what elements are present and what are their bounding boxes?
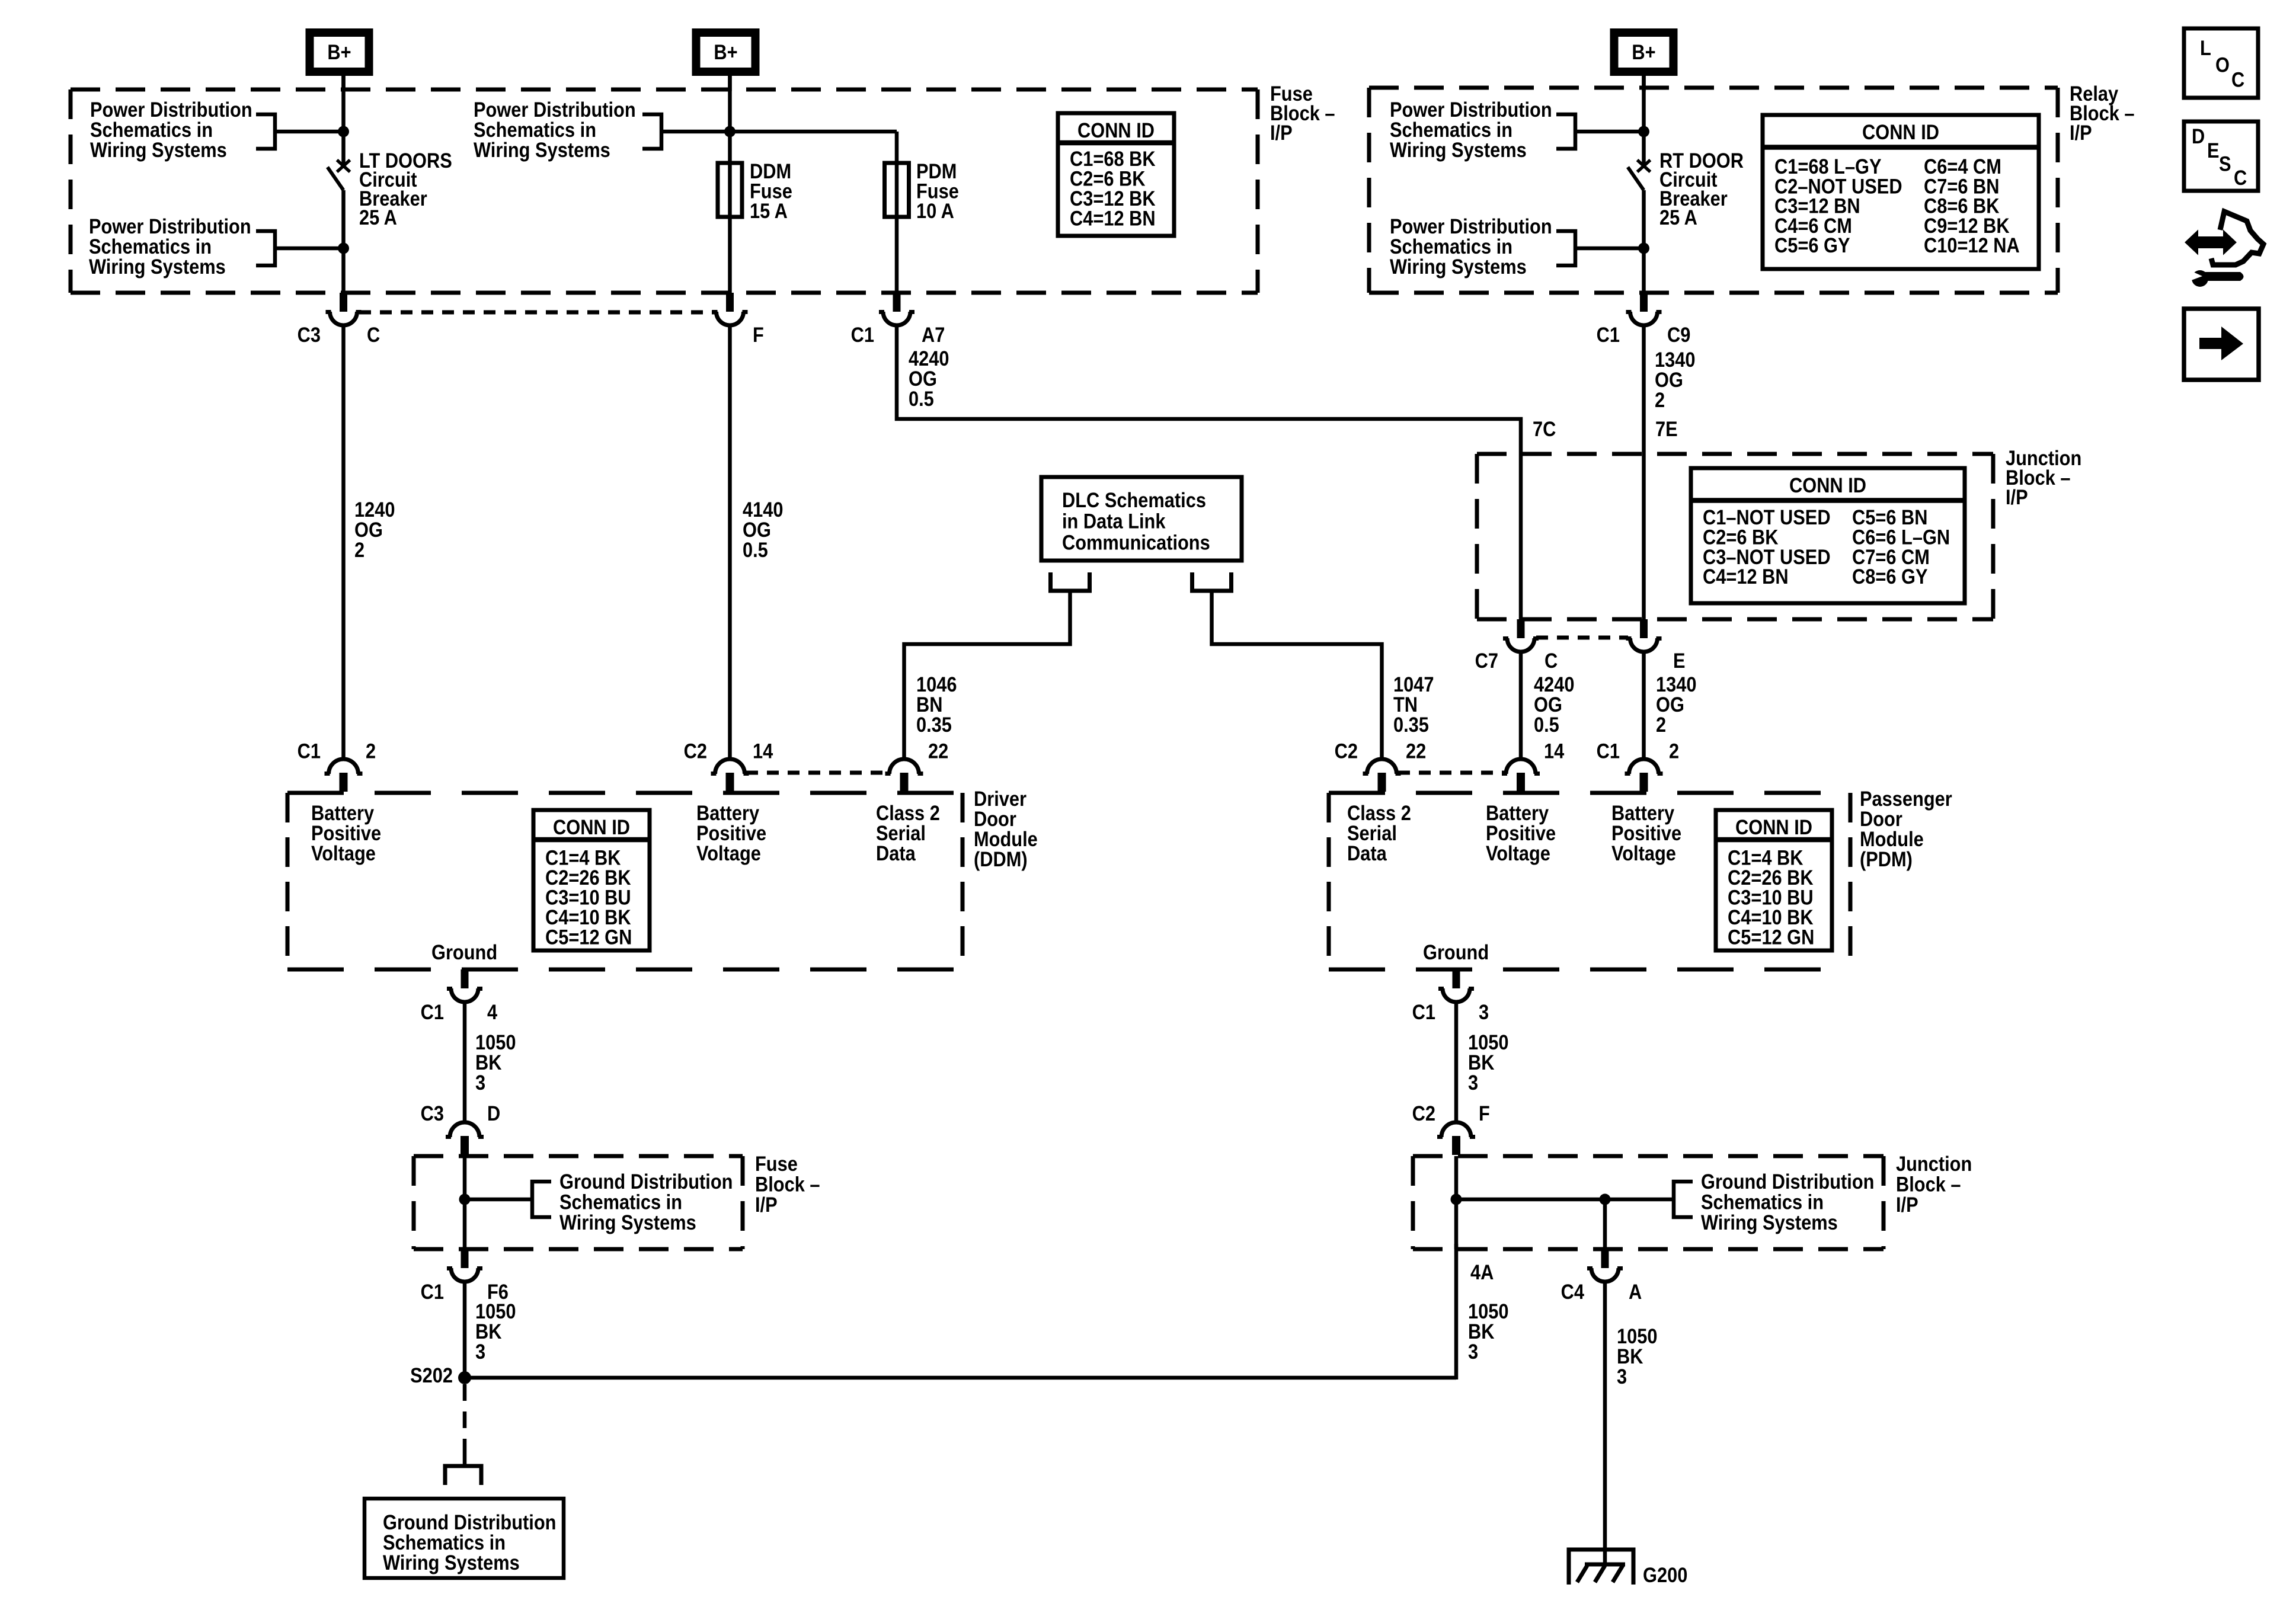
wire callout to RT DOOR breaker — [1575, 247, 1644, 251]
wire B+ down to LT DOORS breaker — [341, 76, 346, 168]
Passenger Door Module dashed enclosure — [1329, 791, 1850, 795]
svg-text:C1: C1 — [298, 740, 321, 763]
connector pin 22 into PDM — [1367, 759, 1397, 774]
svg-text:Wiring Systems: Wiring Systems — [1701, 1211, 1838, 1234]
wire 1240 OG 2 from C3-C to DDM — [341, 325, 346, 760]
svg-text:3: 3 — [475, 1071, 485, 1094]
connector C1-F6 below fuse block — [461, 1249, 469, 1268]
svg-text:0.35: 0.35 — [916, 713, 952, 736]
svg-text:Fuse: Fuse — [755, 1152, 798, 1175]
svg-text:CONN ID: CONN ID — [1077, 119, 1155, 142]
connector C1-A7 below fuse block — [893, 293, 901, 312]
junction dot — [459, 1194, 471, 1205]
connector row dashed line — [359, 311, 715, 315]
wire C4 branch down — [1603, 1199, 1607, 1249]
Fuse Block - I/P dashed enclosure (ground distribution) — [414, 1154, 743, 1158]
icon forward arrow box — [2184, 309, 2259, 380]
connector C7-C below junction block — [1517, 619, 1525, 638]
wire callout to RT DOOR breaker — [1575, 130, 1644, 134]
svg-text:C3: C3 — [421, 1102, 444, 1125]
svg-text:4A: 4A — [1470, 1260, 1494, 1283]
svg-text:E: E — [2207, 139, 2220, 162]
junction dot at DDM fuse feed — [724, 126, 736, 137]
svg-text:C: C — [367, 323, 380, 346]
svg-text:C: C — [2234, 166, 2247, 189]
svg-text:Voltage: Voltage — [311, 841, 376, 865]
wire 1050 BK 3 from PDM ground — [1454, 1002, 1459, 1123]
svg-text:C: C — [1544, 649, 1558, 672]
svg-text:22: 22 — [928, 740, 948, 763]
svg-text:15 A: 15 A — [750, 199, 788, 222]
Driver Door Module dashed enclosure — [287, 791, 962, 795]
wire 1050 BK 3 to S202 — [463, 1282, 467, 1378]
svg-text:Schematics in: Schematics in — [1701, 1190, 1824, 1214]
svg-text:Wiring Systems: Wiring Systems — [474, 138, 610, 161]
svg-text:3: 3 — [1617, 1365, 1627, 1388]
svg-text:D: D — [2192, 124, 2205, 148]
svg-text:22: 22 — [1406, 740, 1426, 763]
svg-text:4: 4 — [487, 1000, 498, 1023]
svg-text:B+: B+ — [327, 40, 351, 63]
connector C3-C below fuse block — [340, 293, 347, 312]
wire through fuse block — [463, 1156, 467, 1249]
svg-text:Voltage: Voltage — [1486, 841, 1550, 865]
svg-text:Ground: Ground — [1423, 940, 1489, 964]
svg-text:14: 14 — [753, 740, 773, 763]
svg-text:D: D — [487, 1102, 500, 1125]
svg-text:in Data Link: in Data Link — [1062, 510, 1166, 533]
svg-text:Junction: Junction — [1896, 1152, 1972, 1175]
svg-text:Wiring Systems: Wiring Systems — [1390, 255, 1527, 278]
svg-text:Ground Distribution: Ground Distribution — [1701, 1170, 1874, 1193]
svg-text:C1: C1 — [421, 1000, 444, 1023]
wire bus corner down to PDM fuse — [895, 132, 899, 293]
connector C1-4 below DDM — [461, 969, 469, 988]
wire 1047 TN 0.35 from DLC to PDM — [1212, 591, 1382, 760]
svg-text:2: 2 — [1655, 388, 1665, 411]
wire 4240 OG 0.5 from A7 to junction block — [897, 325, 1521, 454]
fuse DDM Fuse 15A — [718, 163, 742, 217]
svg-text:3: 3 — [1479, 1000, 1489, 1023]
svg-text:CONN ID: CONN ID — [1862, 120, 1939, 143]
CONN ID table of PDM — [1716, 810, 1832, 950]
svg-text:I/P: I/P — [1896, 1193, 1918, 1216]
connector pin 22 into DDM — [890, 759, 919, 774]
svg-text:25 A: 25 A — [1659, 206, 1697, 229]
svg-text:Communications: Communications — [1062, 531, 1210, 554]
svg-text:Wiring Systems: Wiring Systems — [559, 1211, 696, 1234]
svg-text:O: O — [2215, 53, 2230, 76]
fuse PDM Fuse 10A — [885, 163, 909, 217]
svg-text:2: 2 — [1656, 713, 1666, 736]
dashed wire S202 to ground distribution — [463, 1384, 467, 1453]
svg-text:CONN ID: CONN ID — [553, 815, 630, 838]
splice S202 — [458, 1371, 471, 1384]
connector pin 14 into PDM — [1506, 759, 1536, 774]
svg-text:CONN ID: CONN ID — [1735, 815, 1812, 838]
svg-text:0.5: 0.5 — [743, 538, 768, 561]
svg-text:0.5: 0.5 — [909, 387, 934, 410]
junction dot — [1451, 1194, 1462, 1205]
svg-text:C3: C3 — [298, 323, 321, 346]
icon DESC box — [2184, 121, 2258, 191]
svg-text:0.35: 0.35 — [1393, 713, 1429, 736]
circuit breaker LT DOORS 25A — [337, 160, 350, 172]
Junction Block - I/P dashed enclosure — [1477, 452, 1993, 456]
connector C1-3 below PDM — [1453, 969, 1460, 988]
node B+ terminal 2 (battery positive) — [692, 28, 760, 76]
wire 7E through junction block — [1642, 454, 1646, 619]
svg-text:Data: Data — [1347, 841, 1387, 865]
svg-text:3: 3 — [1468, 1071, 1478, 1094]
junction dot — [1638, 126, 1649, 137]
CONN ID table of DDM — [533, 810, 650, 950]
svg-text:C10=12 NA: C10=12 NA — [1924, 233, 2020, 257]
svg-text:I/P: I/P — [755, 1193, 778, 1216]
wire B+ down to DDM fuse — [728, 76, 732, 293]
svg-text:C5=12 GN: C5=12 GN — [545, 926, 632, 949]
svg-text:C4: C4 — [1561, 1280, 1585, 1303]
wire breaker to connector C3-C — [341, 190, 346, 293]
svg-text:Ground: Ground — [431, 940, 497, 964]
svg-text:E: E — [1673, 649, 1686, 672]
connector row dashed line PDM — [1398, 771, 1504, 775]
wire breaker to connector C1-C9 — [1642, 190, 1646, 293]
junction dot — [1638, 243, 1649, 254]
svg-text:2: 2 — [354, 538, 364, 561]
connector E below junction block — [1640, 619, 1648, 638]
svg-text:A: A — [1629, 1280, 1642, 1303]
svg-text:Wiring Systems: Wiring Systems — [383, 1551, 520, 1574]
svg-text:(DDM): (DDM) — [974, 847, 1028, 870]
node B+ terminal 3 (battery positive) — [1610, 28, 1678, 76]
svg-text:7E: 7E — [1655, 417, 1678, 440]
DLC pin symbol left — [1051, 572, 1090, 591]
ground G200 symbol — [1569, 1550, 1633, 1585]
svg-text:F: F — [753, 323, 764, 346]
connector C1-C9 below relay block — [1640, 293, 1648, 312]
circuit breaker RT DOOR 25A — [1638, 160, 1651, 172]
wire 7C through junction block — [1519, 454, 1523, 619]
svg-text:C8=6 GY: C8=6 GY — [1852, 565, 1928, 588]
wire 1046 BN 0.35 from DLC to DDM — [904, 591, 1070, 760]
Relay Block - I/P dashed enclosure — [1369, 86, 2058, 90]
block Ground Distribution Schematics in Wiring Systems — [364, 1499, 564, 1578]
svg-text:C4=12 BN: C4=12 BN — [1703, 565, 1789, 588]
node B+ terminal 1 (battery positive) — [306, 28, 373, 76]
svg-text:F: F — [1479, 1102, 1490, 1125]
wire callout2 to LT DOORS breaker — [275, 247, 344, 251]
svg-text:C2: C2 — [1335, 740, 1358, 763]
callout Ground Distribution Schematics (fuse block) — [532, 1182, 551, 1217]
Junction Block - I/P dashed enclosure (ground distribution) — [1413, 1154, 1884, 1158]
svg-text:C1: C1 — [851, 323, 874, 346]
wire through junction block — [1454, 1156, 1459, 1249]
svg-text:C4=12 BN: C4=12 BN — [1070, 207, 1156, 230]
svg-text:B+: B+ — [1632, 40, 1655, 63]
svg-text:(PDM): (PDM) — [1860, 847, 1913, 870]
svg-text:Ground Distribution: Ground Distribution — [559, 1170, 733, 1193]
half connector to ground distribution box — [445, 1466, 481, 1485]
svg-text:2: 2 — [366, 740, 376, 763]
CONN ID table of Relay Block — [1763, 115, 2039, 269]
svg-text:B+: B+ — [714, 40, 737, 63]
svg-text:I/P: I/P — [2006, 485, 2028, 508]
connector pin 14 into DDM — [715, 759, 745, 774]
svg-text:2: 2 — [1669, 740, 1679, 763]
svg-text:C: C — [2231, 68, 2244, 91]
CONN ID table of Fuse Block — [1058, 113, 1174, 236]
junction dot C4 branch — [1600, 1194, 1611, 1205]
junction dot — [338, 243, 349, 254]
svg-text:0.5: 0.5 — [1534, 713, 1559, 736]
svg-text:C1: C1 — [1597, 323, 1620, 346]
svg-text:Data: Data — [876, 841, 916, 865]
svg-text:7C: 7C — [1533, 417, 1556, 440]
DLC pin symbol right — [1192, 572, 1232, 591]
svg-text:Wiring Systems: Wiring Systems — [89, 255, 226, 278]
callout Ground Distribution Schematics (junction block) — [1674, 1182, 1693, 1217]
svg-text:C5=6 GY: C5=6 GY — [1774, 233, 1850, 257]
svg-text:I/P: I/P — [2070, 121, 2092, 144]
svg-text:A7: A7 — [922, 323, 945, 346]
svg-text:Voltage: Voltage — [1611, 841, 1676, 865]
svg-text:3: 3 — [475, 1340, 485, 1363]
connector row dashed line DDM — [746, 771, 887, 775]
connector row dashed line — [1536, 636, 1628, 640]
wire S202 to junction block leg — [465, 1376, 1456, 1380]
wire 1050 BK 3 (4A) to S202 wire — [1454, 1244, 1459, 1379]
wire B+ down to RT DOOR breaker — [1642, 76, 1646, 168]
svg-text:Block –: Block – — [755, 1173, 820, 1196]
CONN ID table of Junction Block — [1691, 468, 1965, 603]
svg-text:G200: G200 — [1643, 1563, 1687, 1586]
Fuse Block - I/P dashed enclosure — [71, 88, 1258, 92]
svg-text:C2: C2 — [1412, 1102, 1435, 1125]
svg-text:C9: C9 — [1667, 323, 1690, 346]
connector pin 2 into DDM — [329, 759, 359, 774]
svg-text:Wiring Systems: Wiring Systems — [90, 138, 227, 161]
svg-text:3: 3 — [1468, 1340, 1478, 1363]
wire 4240 OG 0.5 from C to PDM — [1519, 652, 1523, 760]
svg-text:C1: C1 — [1597, 740, 1620, 763]
wire 1340 OG 2 from E to PDM — [1642, 652, 1646, 760]
svg-text:Voltage: Voltage — [696, 841, 761, 865]
connector C4-A below junction block — [1601, 1249, 1609, 1268]
svg-text:25 A: 25 A — [359, 206, 397, 229]
icon LOC box — [2184, 28, 2258, 98]
svg-text:L: L — [2200, 36, 2211, 59]
wire 1050 BK 3 to G200 — [1603, 1282, 1607, 1564]
svg-text:14: 14 — [1544, 740, 1565, 763]
svg-text:Schematics in: Schematics in — [559, 1190, 682, 1214]
wire bus from callout to PDM fuse — [661, 130, 897, 134]
icon repair wrench with arrows — [2186, 232, 2235, 252]
wire 1340 OG 2 from C9 into junction block — [1642, 325, 1646, 454]
connector pin 2 into PDM — [1629, 759, 1659, 774]
svg-text:Wiring Systems: Wiring Systems — [1390, 138, 1527, 161]
svg-text:10 A: 10 A — [916, 199, 954, 222]
connector C2-F into junction block — [1441, 1122, 1471, 1137]
block DLC Schematics in Data Link Communications — [1041, 477, 1242, 561]
connector F below fuse block — [726, 293, 734, 312]
svg-text:DLC Schematics: DLC Schematics — [1062, 488, 1206, 511]
svg-text:Block –: Block – — [1896, 1173, 1961, 1196]
svg-text:CONN ID: CONN ID — [1789, 473, 1866, 497]
svg-text:S: S — [2219, 152, 2231, 175]
svg-text:I/P: I/P — [1270, 121, 1293, 144]
connector C3-D into fuse block — [450, 1122, 479, 1137]
svg-text:S202: S202 — [410, 1363, 453, 1387]
svg-text:C7: C7 — [1475, 649, 1498, 672]
svg-text:C5=12 GN: C5=12 GN — [1728, 926, 1814, 949]
wire to ground callout — [1456, 1198, 1674, 1202]
svg-text:C1: C1 — [1412, 1000, 1435, 1023]
svg-text:C1: C1 — [421, 1280, 444, 1303]
wire callout1 to LT DOORS breaker — [275, 130, 344, 134]
svg-text:C2: C2 — [684, 740, 707, 763]
junction dot — [338, 126, 349, 137]
wire 4140 OG 0.5 from F to DDM — [728, 325, 732, 760]
wire 1050 BK 3 from DDM ground — [463, 1002, 467, 1123]
